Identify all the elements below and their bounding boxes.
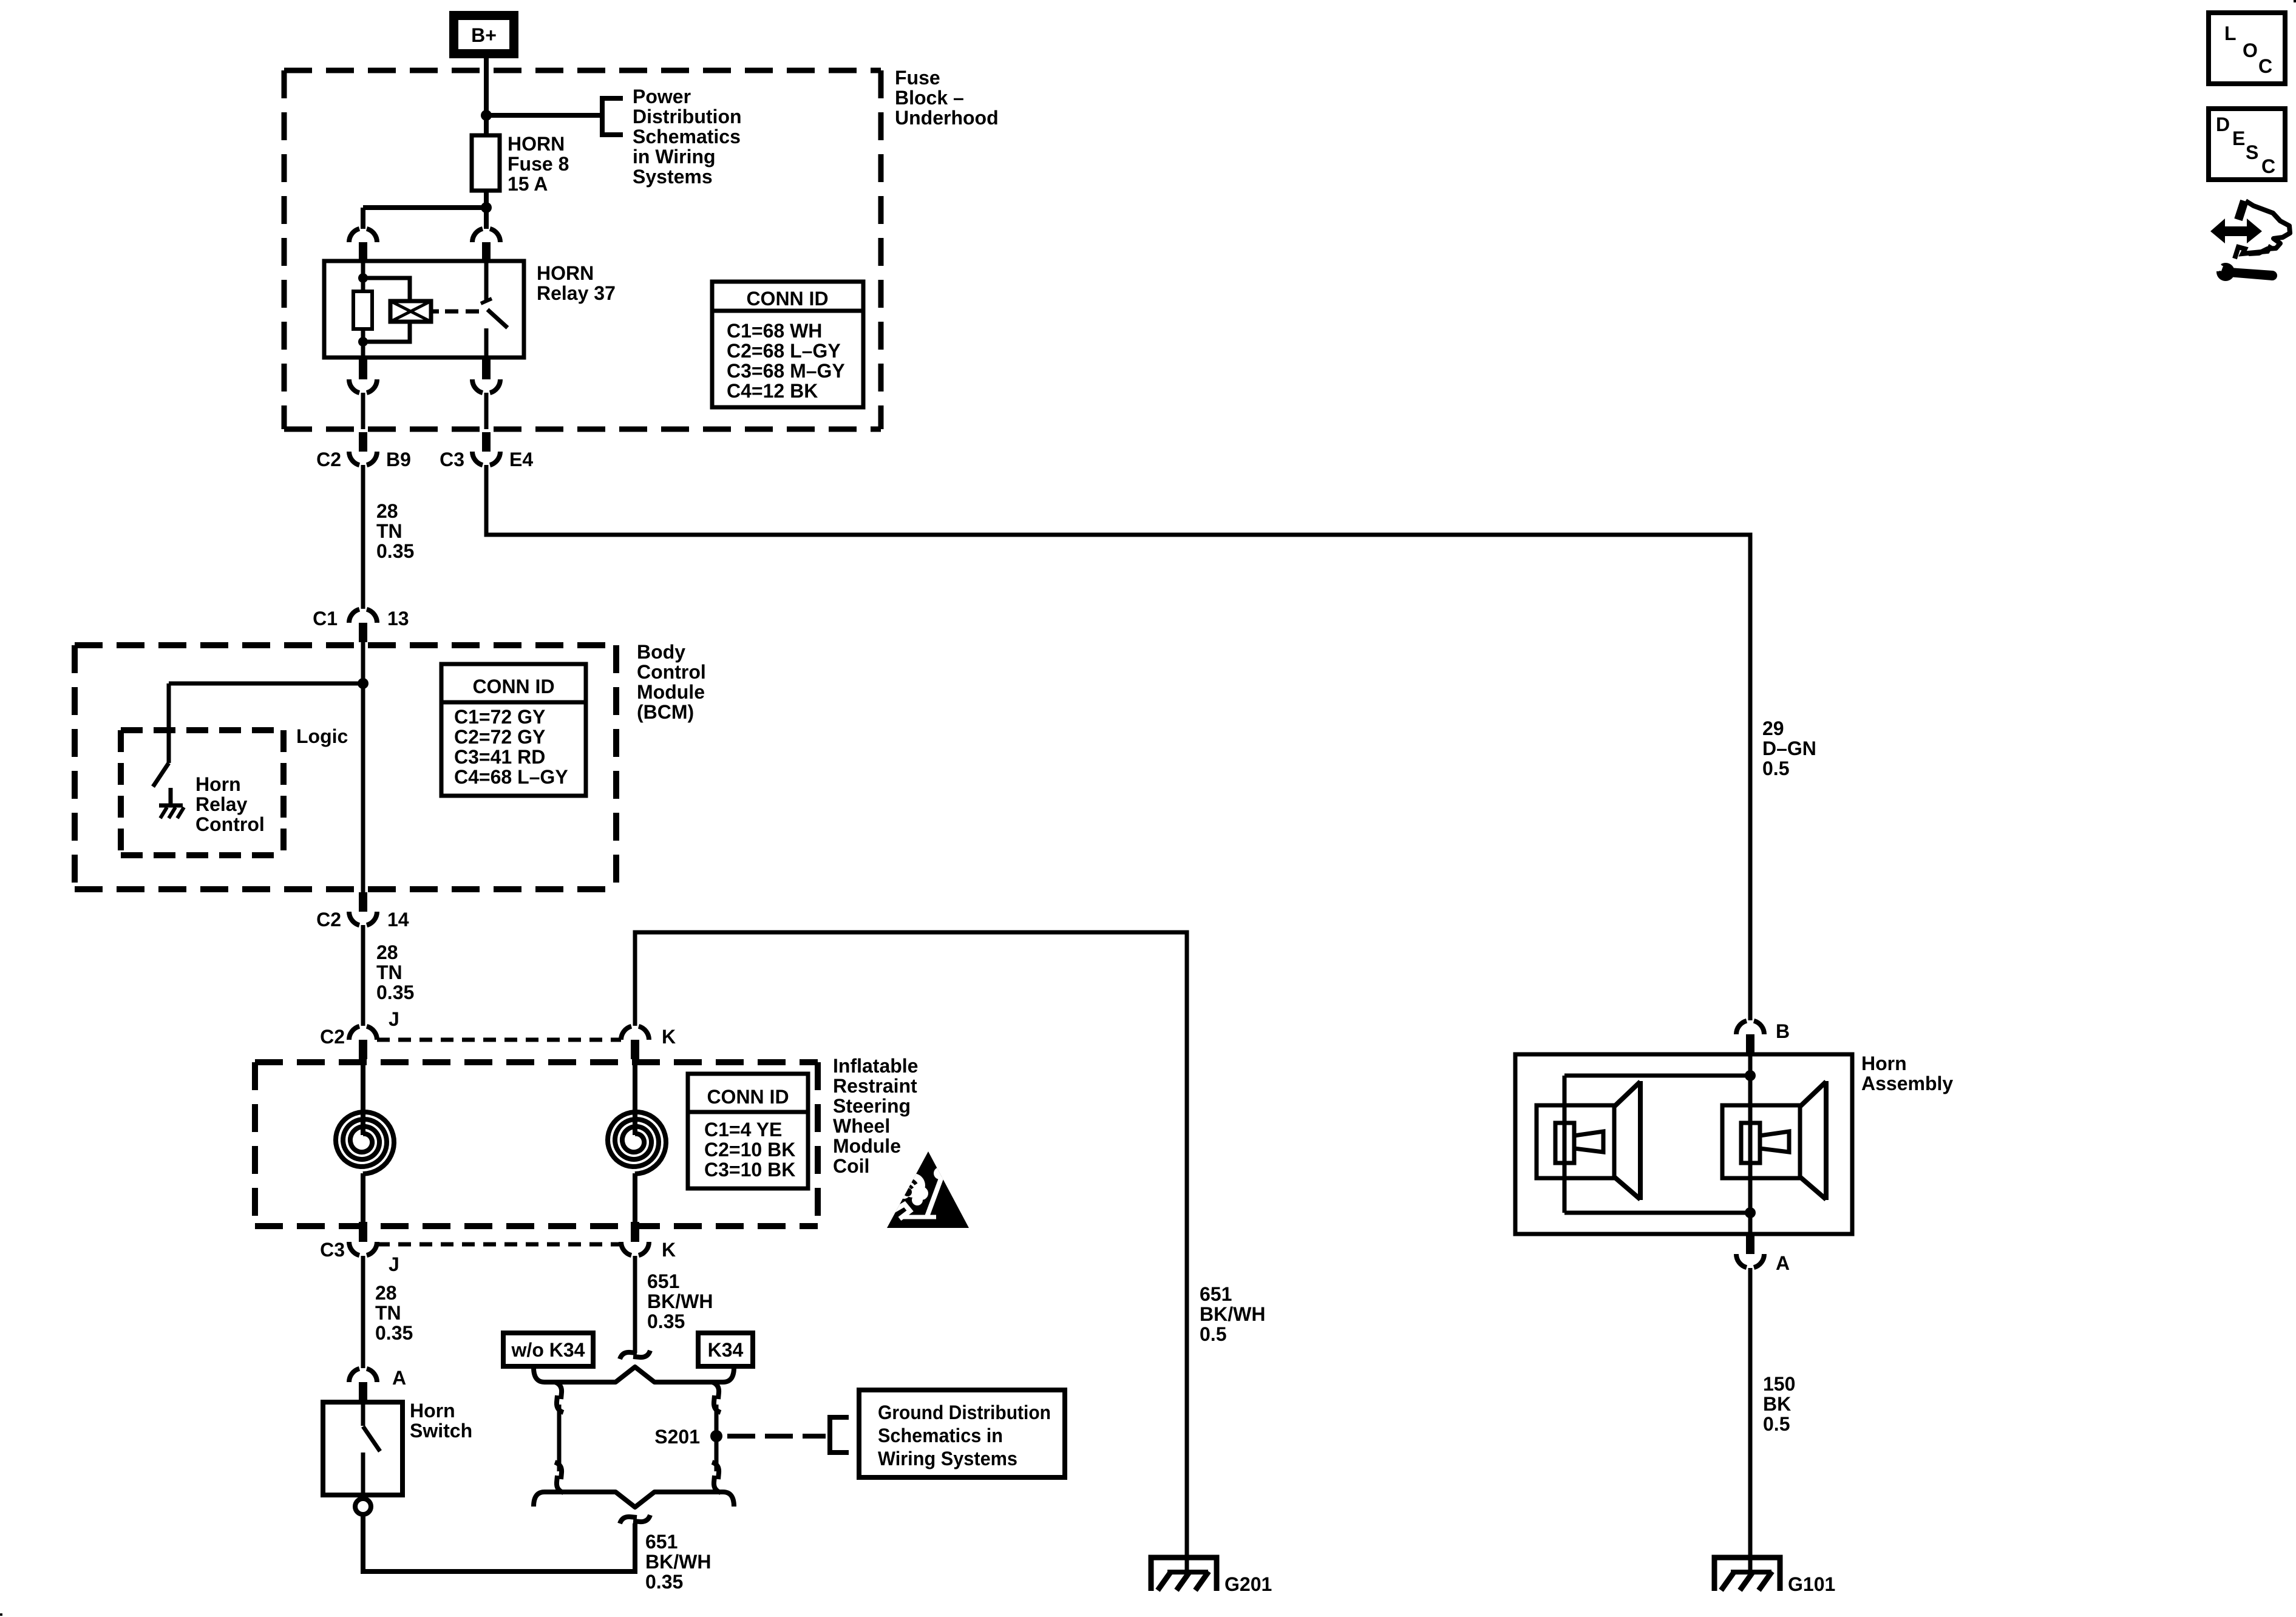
svg-text:C2=72 GY: C2=72 GY [454, 726, 545, 748]
svg-text:C2: C2 [320, 1026, 345, 1048]
svg-text:Ground Distribution: Ground Distribution [878, 1402, 1051, 1423]
svg-text:Power: Power [633, 86, 691, 107]
svg-text:A: A [392, 1367, 406, 1389]
svg-text:0.35: 0.35 [376, 540, 414, 562]
svg-text:28: 28 [376, 500, 398, 522]
svg-text:G101: G101 [1788, 1573, 1835, 1595]
svg-text:Block –: Block – [895, 87, 964, 109]
svg-text:C2=10 BK: C2=10 BK [704, 1139, 795, 1161]
svg-text:Coil: Coil [833, 1155, 869, 1177]
svg-text:Steering: Steering [833, 1095, 911, 1117]
svg-text:TN: TN [376, 961, 402, 983]
svg-text:C2: C2 [316, 449, 341, 470]
svg-text:A: A [1776, 1252, 1790, 1274]
svg-text:Control: Control [637, 661, 706, 683]
svg-text:E4: E4 [509, 449, 533, 470]
svg-text:C1: C1 [313, 608, 338, 629]
svg-text:BK/WH: BK/WH [1200, 1303, 1265, 1325]
svg-text:Control: Control [195, 813, 265, 835]
svg-text:S201: S201 [654, 1426, 700, 1448]
svg-text:Module: Module [833, 1135, 901, 1157]
svg-text:CONN ID: CONN ID [746, 288, 828, 310]
svg-text:D–GN: D–GN [1762, 737, 1816, 759]
svg-text:C: C [2258, 55, 2272, 77]
svg-text:0.35: 0.35 [647, 1310, 685, 1332]
svg-text:Schematics in: Schematics in [878, 1425, 1003, 1446]
svg-text:C1=68 WH: C1=68 WH [727, 320, 822, 342]
svg-text:in Wiring: in Wiring [633, 146, 716, 168]
svg-text:651: 651 [1200, 1283, 1232, 1305]
svg-text:Wiring Systems: Wiring Systems [878, 1448, 1017, 1470]
svg-text:BK/WH: BK/WH [647, 1290, 713, 1312]
svg-text:C3=41 RD: C3=41 RD [454, 746, 545, 768]
svg-text:C3=68 M–GY: C3=68 M–GY [727, 360, 845, 382]
svg-text:w/o K34: w/o K34 [511, 1339, 585, 1361]
svg-text:J: J [389, 1008, 399, 1030]
svg-text:Fuse: Fuse [895, 67, 940, 89]
svg-text:150: 150 [1763, 1373, 1795, 1395]
svg-text:0.5: 0.5 [1200, 1323, 1226, 1345]
svg-text:B+: B+ [471, 24, 497, 46]
svg-text:K: K [662, 1239, 676, 1261]
svg-text:29: 29 [1762, 717, 1784, 739]
svg-text:Logic: Logic [296, 725, 348, 747]
svg-text:Horn: Horn [195, 773, 241, 795]
svg-text:14: 14 [387, 909, 409, 931]
svg-text:0.5: 0.5 [1762, 758, 1789, 779]
svg-text:BK: BK [1763, 1393, 1791, 1415]
svg-text:K34: K34 [708, 1339, 744, 1361]
svg-text:Restraint: Restraint [833, 1075, 917, 1097]
svg-text:Inflatable: Inflatable [833, 1055, 918, 1077]
svg-text:(BCM): (BCM) [637, 701, 694, 723]
svg-text:0.35: 0.35 [645, 1571, 683, 1593]
svg-text:651: 651 [647, 1270, 679, 1292]
svg-text:Schematics: Schematics [633, 126, 741, 147]
svg-text:C1=4 YE: C1=4 YE [704, 1119, 782, 1141]
svg-text:O: O [2243, 39, 2258, 61]
svg-text:S: S [2246, 141, 2258, 163]
svg-text:Distribution: Distribution [633, 106, 742, 127]
svg-text:0.5: 0.5 [1763, 1413, 1790, 1435]
svg-text:L: L [2224, 22, 2237, 44]
svg-text:HORN: HORN [537, 262, 594, 284]
svg-text:K: K [662, 1026, 676, 1048]
svg-text:C2: C2 [316, 909, 341, 931]
svg-text:J: J [389, 1253, 399, 1275]
svg-text:Horn: Horn [1861, 1053, 1907, 1074]
svg-text:28: 28 [376, 941, 398, 963]
svg-text:BK/WH: BK/WH [645, 1551, 711, 1573]
svg-text:C3: C3 [320, 1239, 345, 1261]
svg-text:HORN: HORN [508, 133, 565, 155]
svg-text:0.35: 0.35 [375, 1322, 413, 1344]
svg-text:0.35: 0.35 [376, 981, 414, 1003]
svg-text:CONN ID: CONN ID [472, 676, 554, 697]
svg-text:Wheel: Wheel [833, 1115, 890, 1137]
svg-text:Systems: Systems [633, 166, 713, 188]
svg-text:Switch: Switch [410, 1420, 472, 1442]
svg-text:TN: TN [375, 1302, 401, 1324]
svg-text:D: D [2216, 114, 2230, 135]
svg-text:E: E [2232, 127, 2245, 149]
svg-text:G201: G201 [1224, 1573, 1272, 1595]
svg-text:Horn: Horn [410, 1400, 455, 1422]
svg-text:Body: Body [637, 641, 685, 663]
svg-text:651: 651 [645, 1531, 678, 1553]
svg-text:TN: TN [376, 520, 402, 542]
svg-text:Fuse 8: Fuse 8 [508, 153, 569, 175]
svg-text:Relay 37: Relay 37 [537, 282, 616, 304]
svg-text:13: 13 [387, 608, 409, 629]
svg-text:C1=72 GY: C1=72 GY [454, 706, 545, 728]
svg-text:C4=68 L–GY: C4=68 L–GY [454, 766, 568, 788]
svg-text:C2=68 L–GY: C2=68 L–GY [727, 340, 841, 362]
svg-text:CONN ID: CONN ID [707, 1086, 789, 1108]
svg-text:B9: B9 [386, 449, 411, 470]
svg-text:C3: C3 [440, 449, 464, 470]
svg-text:Module: Module [637, 681, 705, 703]
svg-text:C: C [2261, 155, 2275, 177]
svg-text:B: B [1776, 1020, 1790, 1042]
svg-text:C4=12 BK: C4=12 BK [727, 380, 818, 402]
svg-text:Relay: Relay [195, 793, 248, 815]
svg-text:28: 28 [375, 1282, 397, 1304]
svg-text:Underhood: Underhood [895, 107, 999, 129]
svg-text:C3=10 BK: C3=10 BK [704, 1159, 795, 1181]
svg-text:15 A: 15 A [508, 173, 548, 195]
svg-text:Assembly: Assembly [1861, 1073, 1953, 1094]
